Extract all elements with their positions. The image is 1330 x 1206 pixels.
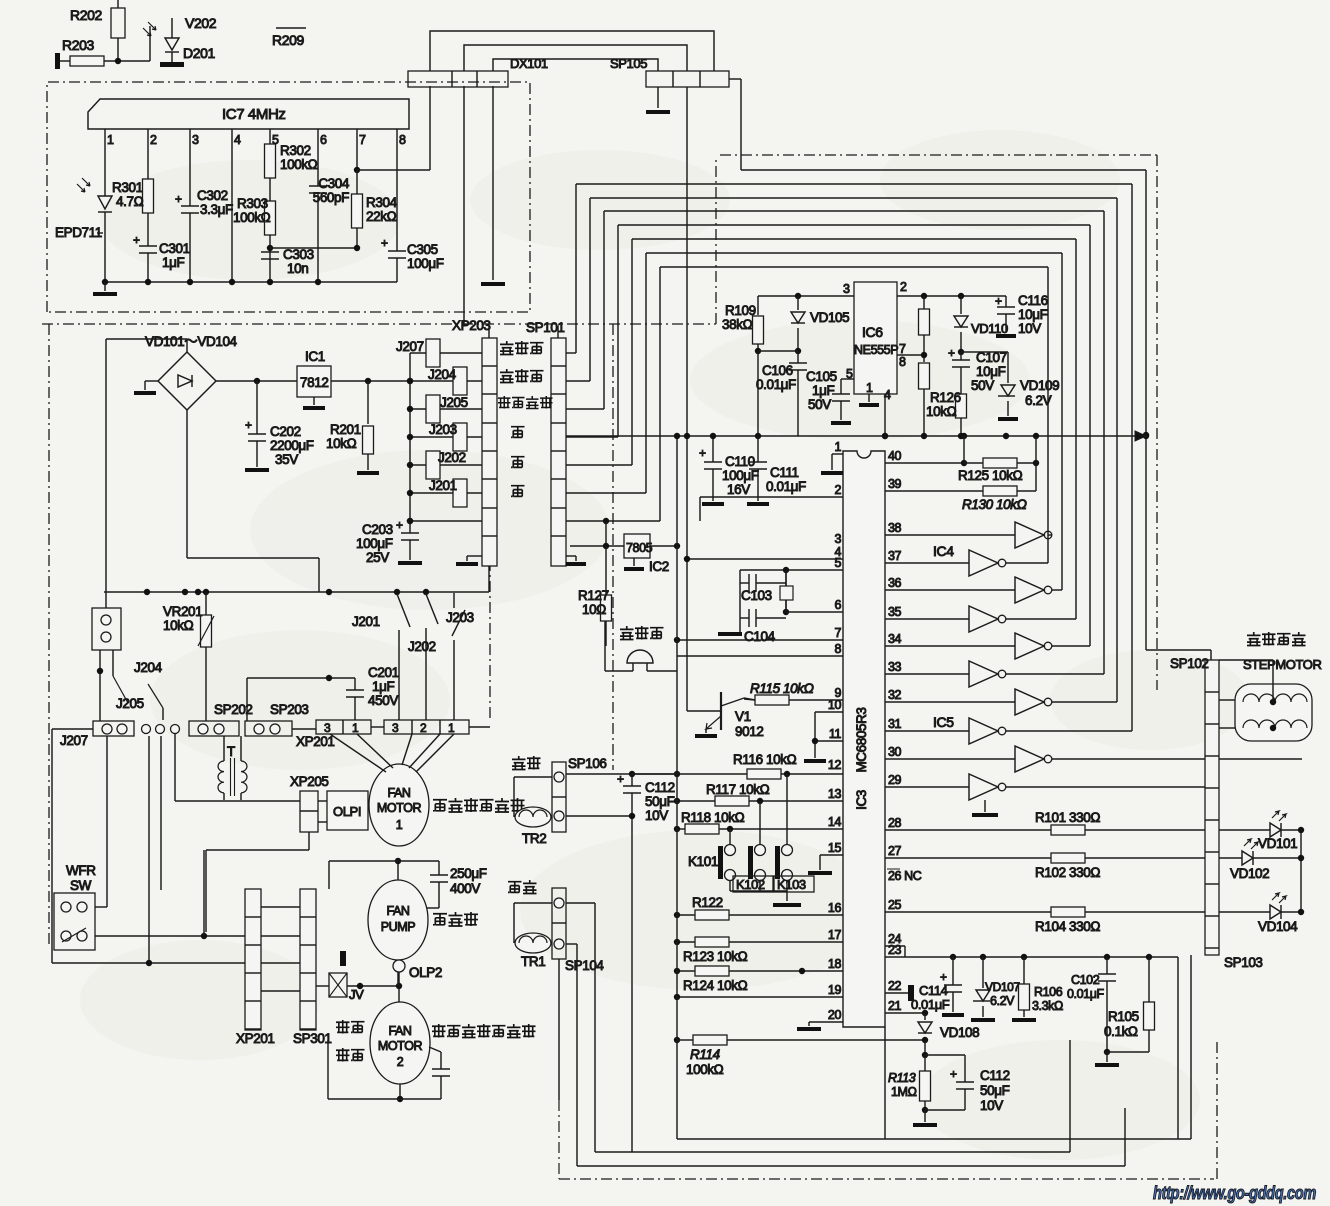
svg-text:36: 36 (888, 576, 902, 590)
svg-text:WFR: WFR (66, 863, 96, 878)
svg-text:+: + (617, 772, 624, 786)
svg-text:+: + (133, 233, 140, 247)
svg-text:23: 23 (888, 943, 902, 957)
svg-text:15: 15 (828, 841, 842, 855)
svg-text:7: 7 (359, 133, 366, 147)
svg-text:2: 2 (397, 1055, 404, 1069)
svg-text:0.01μF: 0.01μF (911, 997, 950, 1012)
svg-text:R116 10kΩ: R116 10kΩ (733, 752, 797, 767)
svg-text:50μF: 50μF (980, 1083, 1010, 1098)
svg-text:22kΩ: 22kΩ (366, 209, 397, 224)
svg-text:R125 10kΩ: R125 10kΩ (958, 468, 1023, 483)
svg-text:J203: J203 (446, 610, 474, 625)
svg-text:VD110: VD110 (971, 321, 1008, 336)
svg-text:C112: C112 (980, 1068, 1010, 1083)
svg-text:30: 30 (888, 745, 902, 759)
svg-text:250μF: 250μF (450, 866, 487, 881)
svg-text:7805: 7805 (626, 541, 653, 555)
svg-text:IC6: IC6 (862, 324, 883, 340)
svg-text:VR201: VR201 (163, 604, 202, 619)
svg-text:IC5: IC5 (933, 714, 954, 730)
svg-text:100μF: 100μF (407, 256, 444, 271)
svg-text:39: 39 (888, 477, 902, 491)
svg-text:31: 31 (888, 717, 902, 731)
svg-text:R102 330Ω: R102 330Ω (1035, 865, 1100, 880)
svg-text:FAN: FAN (388, 1024, 411, 1038)
svg-text:4.7Ω: 4.7Ω (116, 194, 144, 209)
svg-text:35V: 35V (275, 452, 298, 467)
svg-text:1μF: 1μF (162, 255, 184, 270)
svg-text:VD109: VD109 (1020, 378, 1059, 393)
svg-text:27: 27 (888, 844, 902, 858)
svg-text:4: 4 (234, 133, 241, 147)
svg-text:50V: 50V (971, 378, 994, 393)
svg-text:R114: R114 (690, 1047, 720, 1062)
svg-text:C304: C304 (318, 176, 350, 191)
svg-text:OLP2: OLP2 (409, 965, 442, 980)
svg-text:C103: C103 (741, 588, 772, 603)
svg-text:VD108: VD108 (940, 1025, 979, 1040)
svg-text:SP105: SP105 (610, 56, 647, 71)
svg-text:10μF: 10μF (1018, 307, 1048, 322)
svg-text:K102: K102 (736, 877, 765, 892)
svg-text:C114: C114 (919, 983, 948, 998)
svg-text:38: 38 (888, 521, 902, 535)
svg-text:R101 330Ω: R101 330Ω (1035, 810, 1100, 825)
svg-text:R202: R202 (70, 7, 102, 23)
svg-text:1: 1 (352, 721, 359, 735)
svg-text:100kΩ: 100kΩ (233, 210, 271, 225)
svg-text:SP301: SP301 (293, 1031, 332, 1046)
svg-text:R126: R126 (930, 390, 961, 405)
svg-text:V1: V1 (735, 709, 751, 724)
svg-text:3: 3 (843, 282, 850, 296)
svg-text:V202: V202 (185, 15, 217, 31)
svg-text:R113: R113 (888, 1071, 916, 1085)
svg-text:R117 10kΩ: R117 10kΩ (706, 782, 770, 797)
svg-text:XP205: XP205 (290, 774, 329, 789)
svg-text:R115 10kΩ: R115 10kΩ (750, 681, 814, 696)
svg-text:R124 10kΩ: R124 10kΩ (683, 978, 748, 993)
svg-text:400V: 400V (450, 881, 480, 896)
svg-text:10n: 10n (287, 261, 308, 276)
svg-text:10kΩ: 10kΩ (926, 404, 957, 419)
svg-text:16V: 16V (727, 482, 750, 497)
svg-text:1MΩ: 1MΩ (891, 1085, 917, 1099)
svg-text:+: + (699, 446, 706, 460)
svg-text:2: 2 (150, 133, 157, 147)
svg-text:17: 17 (828, 928, 842, 942)
svg-text:C116: C116 (1018, 293, 1048, 308)
svg-text:R127: R127 (578, 588, 609, 603)
svg-text:FAN: FAN (386, 904, 409, 918)
svg-text:16: 16 (828, 901, 842, 915)
svg-text:32: 32 (888, 688, 902, 702)
svg-text:20: 20 (828, 1008, 842, 1022)
svg-text:C106: C106 (762, 363, 793, 378)
svg-text:6: 6 (834, 598, 841, 612)
svg-text:DX101: DX101 (510, 56, 548, 71)
svg-text:1μF: 1μF (372, 679, 394, 694)
svg-text:3: 3 (834, 532, 841, 546)
svg-text:SP106: SP106 (568, 756, 607, 771)
svg-text:7812: 7812 (300, 375, 328, 390)
svg-text:10Ω: 10Ω (582, 602, 606, 617)
svg-text:PUMP: PUMP (381, 920, 416, 934)
svg-text:6: 6 (320, 133, 327, 147)
svg-text:SP102: SP102 (1170, 656, 1209, 671)
svg-text:R209: R209 (272, 32, 304, 48)
svg-text:J202: J202 (438, 450, 466, 465)
svg-text:+: + (940, 970, 947, 984)
svg-text:D201: D201 (183, 45, 215, 61)
svg-text:34: 34 (888, 632, 902, 646)
svg-text:3: 3 (192, 133, 199, 147)
svg-text:J203: J203 (429, 422, 457, 437)
svg-text:http://www.go-gddq.com: http://www.go-gddq.com (1153, 1183, 1316, 1203)
svg-text:37: 37 (888, 549, 902, 563)
svg-text:VD101～VD104: VD101～VD104 (145, 334, 238, 349)
svg-text:C202: C202 (270, 424, 301, 439)
svg-text:29: 29 (888, 773, 902, 787)
svg-text:TR1: TR1 (521, 954, 545, 969)
svg-text:R130 10kΩ: R130 10kΩ (962, 497, 1027, 512)
svg-text:50μF: 50μF (645, 794, 675, 809)
svg-text:SP101: SP101 (526, 320, 565, 335)
svg-text:100μF: 100μF (356, 536, 393, 551)
svg-text:33: 33 (888, 660, 902, 674)
svg-text:R104 330Ω: R104 330Ω (1035, 919, 1100, 934)
svg-text:8: 8 (399, 133, 406, 147)
svg-text:12: 12 (828, 758, 842, 772)
svg-text:J201: J201 (352, 614, 380, 629)
svg-text:J207: J207 (396, 339, 424, 354)
svg-text:13: 13 (828, 787, 842, 801)
svg-text:10μF: 10μF (976, 364, 1006, 379)
svg-text:IC1: IC1 (305, 349, 325, 364)
svg-text:2: 2 (900, 280, 907, 294)
svg-text:R203: R203 (62, 37, 94, 53)
svg-text:JV: JV (349, 987, 364, 1002)
svg-text:3.3kΩ: 3.3kΩ (1032, 999, 1063, 1013)
svg-text:R201: R201 (330, 422, 361, 437)
svg-text:100μF: 100μF (722, 468, 759, 483)
svg-text:+: + (950, 1067, 957, 1081)
svg-text:K103: K103 (777, 877, 806, 892)
svg-text:XP201: XP201 (296, 734, 335, 749)
svg-text:22: 22 (888, 979, 902, 993)
svg-text:R123 10kΩ: R123 10kΩ (683, 949, 748, 964)
svg-text:1: 1 (396, 818, 403, 832)
svg-text:C112: C112 (645, 780, 675, 795)
svg-text:C105: C105 (806, 369, 837, 384)
svg-text:SP202: SP202 (214, 702, 253, 717)
svg-text:2: 2 (420, 721, 427, 735)
svg-text:MOTOR: MOTOR (378, 1039, 423, 1053)
svg-text:100kΩ: 100kΩ (280, 157, 318, 172)
svg-text:MC6805R3: MC6805R3 (854, 707, 869, 772)
svg-text:+: + (245, 418, 252, 432)
svg-text:0.01μF: 0.01μF (1067, 987, 1105, 1001)
svg-text:+: + (948, 346, 955, 360)
svg-text:MOTOR: MOTOR (377, 801, 422, 815)
svg-text:C102: C102 (1071, 973, 1100, 987)
svg-text:J205: J205 (440, 395, 468, 410)
svg-text:TR2: TR2 (522, 831, 546, 846)
svg-text:SP104: SP104 (565, 958, 604, 973)
svg-text:K101: K101 (688, 854, 718, 869)
svg-text:J207: J207 (60, 733, 88, 748)
svg-text:8: 8 (834, 642, 841, 656)
svg-text:R109: R109 (725, 303, 756, 318)
svg-text:25: 25 (888, 898, 902, 912)
svg-text:28: 28 (888, 816, 902, 830)
svg-text:C301: C301 (159, 241, 190, 256)
svg-text:1: 1 (448, 721, 455, 735)
svg-text:R118 10kΩ: R118 10kΩ (681, 810, 745, 825)
svg-text:7: 7 (899, 342, 906, 356)
svg-text:10kΩ: 10kΩ (326, 436, 357, 451)
svg-text:0.01μF: 0.01μF (766, 479, 806, 494)
svg-text:1: 1 (834, 440, 841, 454)
svg-text:R303: R303 (237, 196, 268, 211)
svg-text:560pF: 560pF (313, 190, 349, 205)
svg-text:2200μF: 2200μF (270, 438, 314, 453)
svg-text:C302: C302 (197, 188, 228, 203)
svg-text:2: 2 (834, 483, 841, 497)
svg-text:J201: J201 (429, 478, 457, 493)
svg-text:38kΩ: 38kΩ (722, 317, 753, 332)
svg-text:7: 7 (834, 626, 841, 640)
svg-text:R304: R304 (366, 195, 398, 210)
svg-text:C305: C305 (407, 242, 438, 257)
svg-text:6.2V: 6.2V (990, 994, 1015, 1008)
svg-text:SP103: SP103 (1224, 955, 1263, 970)
svg-text:0.1kΩ: 0.1kΩ (1104, 1024, 1138, 1039)
svg-text:40: 40 (888, 449, 902, 463)
svg-text:IC2: IC2 (649, 559, 669, 574)
svg-text:FAN: FAN (387, 786, 410, 800)
svg-text:1: 1 (866, 381, 873, 395)
svg-text:35: 35 (888, 605, 902, 619)
svg-text:C203: C203 (362, 522, 393, 537)
svg-text:+: + (995, 294, 1002, 308)
svg-text:SP203: SP203 (270, 702, 309, 717)
svg-text:6.2V: 6.2V (1025, 393, 1052, 408)
svg-text:XP203: XP203 (452, 318, 491, 333)
svg-text:10V: 10V (980, 1098, 1003, 1113)
svg-text:EPD711: EPD711 (55, 225, 102, 240)
svg-text:NE555P: NE555P (854, 343, 898, 357)
svg-text:+: + (381, 236, 388, 250)
svg-text:100kΩ: 100kΩ (686, 1062, 724, 1077)
svg-text:3: 3 (324, 721, 331, 735)
svg-text:SW: SW (70, 878, 92, 893)
svg-text:9012: 9012 (735, 724, 763, 739)
svg-text:STEPMOTOR: STEPMOTOR (1243, 657, 1322, 672)
svg-text:J204: J204 (428, 367, 457, 382)
svg-text:R105: R105 (1108, 1009, 1139, 1024)
svg-text:1: 1 (107, 133, 114, 147)
svg-text:R302: R302 (280, 143, 311, 158)
svg-text:XP201: XP201 (236, 1031, 275, 1046)
svg-text:8: 8 (899, 355, 906, 369)
svg-text:450V: 450V (368, 693, 398, 708)
svg-text:VD104: VD104 (1258, 919, 1298, 934)
svg-text:J205: J205 (116, 696, 144, 711)
svg-text:14: 14 (828, 815, 842, 829)
svg-text:J204: J204 (134, 660, 163, 675)
svg-text:11: 11 (829, 727, 842, 741)
svg-text:50V: 50V (808, 397, 831, 412)
svg-text:10kΩ: 10kΩ (163, 618, 194, 633)
svg-text:VD107: VD107 (985, 980, 1020, 994)
svg-text:5: 5 (834, 556, 841, 570)
svg-text:T: T (227, 744, 235, 759)
svg-text:R301: R301 (112, 180, 143, 195)
svg-text:18: 18 (828, 957, 842, 971)
svg-text:19: 19 (828, 983, 842, 997)
svg-text:C104: C104 (744, 629, 776, 644)
svg-text:3: 3 (392, 721, 399, 735)
svg-text:+: + (175, 192, 182, 206)
svg-text:3.3μF: 3.3μF (200, 202, 233, 217)
svg-text:+: + (396, 518, 403, 532)
svg-text:IC3: IC3 (854, 790, 869, 810)
svg-text:C111: C111 (770, 465, 799, 480)
svg-text:VD101: VD101 (1258, 836, 1297, 851)
svg-text:R122: R122 (692, 895, 723, 910)
svg-text:J202: J202 (408, 639, 436, 654)
svg-text:VD102: VD102 (1230, 866, 1269, 881)
svg-text:C201: C201 (368, 665, 399, 680)
svg-text:VD105: VD105 (810, 310, 849, 325)
svg-text:1μF: 1μF (812, 383, 834, 398)
svg-text:OLPI: OLPI (333, 804, 361, 819)
svg-text:10V: 10V (645, 808, 668, 823)
svg-text:C303: C303 (283, 247, 314, 262)
svg-text:21: 21 (888, 999, 902, 1013)
svg-text:0.01μF: 0.01μF (756, 377, 796, 392)
svg-text:IC7 4MHz: IC7 4MHz (222, 106, 285, 123)
svg-text:IC4: IC4 (933, 543, 954, 559)
svg-text:10V: 10V (1018, 321, 1041, 336)
svg-text:25V: 25V (366, 550, 389, 565)
svg-text:26 NC: 26 NC (888, 869, 922, 883)
svg-text:R106: R106 (1034, 985, 1063, 999)
